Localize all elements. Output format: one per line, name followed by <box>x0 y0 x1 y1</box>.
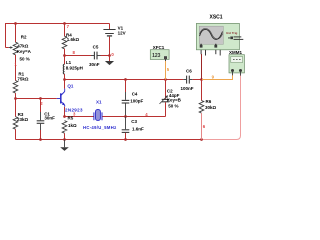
svg-text:100pF: 100pF <box>130 98 143 103</box>
battery V1 plates <box>103 29 115 31</box>
wire R1 bottom to base wire <box>15 93 17 117</box>
resistor R3 labels <box>17 112 29 122</box>
node junction rail R5 <box>63 138 66 141</box>
resistor R1 labels <box>17 71 29 81</box>
capacitor C3 body <box>125 117 127 130</box>
wire left vertical to R2 top <box>15 24 17 43</box>
svg-text:XSC1: XSC1 <box>210 14 223 20</box>
svg-text:12V: 12V <box>118 31 126 36</box>
wire XMM1 left pin stub <box>232 72 234 76</box>
svg-text:Key=B: Key=B <box>167 98 182 103</box>
ground at rail <box>64 140 66 148</box>
capacitor C6 labels <box>181 69 194 91</box>
node junction C3 top <box>124 115 127 118</box>
wire top rail <box>6 24 110 48</box>
capacitor C4 body <box>125 92 127 100</box>
svg-text:Q1: Q1 <box>67 84 74 89</box>
wire X1 right node4 <box>102 116 165 118</box>
resistor R6 body <box>199 101 204 114</box>
node junction R6 top <box>200 78 203 81</box>
wire top rail to R4 <box>64 24 66 37</box>
node junction rail C3 <box>124 138 127 141</box>
svg-text:Key=A: Key=A <box>17 49 32 54</box>
wire R3 bottom to rail <box>15 129 17 139</box>
node junction C1 top <box>39 97 42 100</box>
svg-text:1.6nF: 1.6nF <box>132 126 144 131</box>
svg-text:8.925µH: 8.925µH <box>66 66 83 71</box>
multimeter XMM1 display <box>231 57 243 63</box>
wire node8 horizontal to C5 <box>65 55 92 57</box>
svg-text:R2: R2 <box>21 35 27 40</box>
potentiometer R2 body <box>13 42 18 55</box>
node junction base wire left <box>14 97 17 100</box>
svg-text:XFC1: XFC1 <box>153 45 165 50</box>
battery V1 labels <box>118 25 126 35</box>
resistor R6 labels <box>205 99 217 110</box>
node junction V1 C5 ground <box>108 54 111 57</box>
capacitor C4 top lead <box>125 80 127 93</box>
transistor Q1 labels <box>65 84 83 113</box>
wire base net2 horizontal <box>16 98 57 100</box>
resistor R4 labels <box>66 33 80 42</box>
capacitor C5 labels <box>89 45 100 67</box>
svg-text:V1: V1 <box>118 25 124 30</box>
svg-text:30nF: 30nF <box>44 116 55 121</box>
capacitor C3 labels <box>131 119 144 131</box>
crystal X1 <box>94 109 102 120</box>
oscilloscope XSC1 screen with sine <box>199 26 223 44</box>
variable capacitor C2 arrow <box>160 97 167 104</box>
node junction rail R6 <box>200 138 203 141</box>
inductor L1 labels <box>66 60 83 71</box>
node junction rail C1 <box>39 138 42 141</box>
potentiometer R2 wiper wire <box>6 47 9 49</box>
wire node 1 segment <box>15 55 17 81</box>
svg-text:HC-49/U_5MHz: HC-49/U_5MHz <box>83 125 117 130</box>
capacitor C6 body <box>186 76 188 84</box>
svg-text:R5: R5 <box>68 116 74 121</box>
svg-text:C6: C6 <box>186 69 192 74</box>
oscilloscope XSC1 box <box>196 23 239 49</box>
resistor R4 body <box>62 36 67 49</box>
svg-text:123: 123 <box>152 53 161 59</box>
svg-text:R6: R6 <box>206 99 212 104</box>
capacitor C1 bottom lead <box>40 130 42 140</box>
svg-text:X1: X1 <box>96 100 102 105</box>
capacitor C1 body <box>40 112 42 120</box>
ground at V1 <box>109 56 111 62</box>
battery V1 top lead <box>109 24 111 30</box>
wire bottom rail <box>16 139 202 141</box>
wire C5 right to V1 <box>97 55 100 57</box>
wire R6 bottom to rail <box>201 113 203 139</box>
variable capacitor C2 labels <box>167 88 182 108</box>
inductor L1 body <box>63 64 64 74</box>
wire pink rail segment to XMM1 negative <box>202 75 241 139</box>
wire L1 bottom to collector <box>64 74 66 89</box>
capacitor C1 top lead <box>40 99 42 113</box>
svg-text:Ext Trig: Ext Trig <box>226 31 237 35</box>
potentiometer R2 wiper arrow <box>9 47 11 49</box>
svg-text:23kΩ: 23kΩ <box>17 117 29 122</box>
wire C6 right to R6 top <box>190 79 193 81</box>
node junction node 8 <box>63 54 66 57</box>
resistor R6 top lead <box>201 80 203 101</box>
svg-text:50 %: 50 % <box>20 57 30 62</box>
svg-text:1kΩ: 1kΩ <box>68 123 77 128</box>
multimeter XMM1 box <box>229 55 244 73</box>
potentiometer R2 labels <box>17 35 32 62</box>
wire XSC1 channel A <box>201 54 203 80</box>
resistor R1 body <box>13 81 18 94</box>
capacitor C1 labels <box>44 111 55 120</box>
wire orange to XMM1 <box>202 75 233 79</box>
node junction C2 top / XFC1 <box>164 78 167 81</box>
variable capacitor C2 top lead <box>165 80 167 99</box>
svg-text:75kΩ: 75kΩ <box>17 76 29 81</box>
wire XMM1 right pin pink <box>240 72 242 76</box>
svg-text:C3: C3 <box>131 119 137 124</box>
node junction R5 top <box>63 115 66 118</box>
svg-text:1.6kΩ: 1.6kΩ <box>67 37 80 42</box>
capacitor C4 labels <box>130 91 143 103</box>
capacitor C3 bottom lead <box>125 133 127 140</box>
wire XFC1 pin orange <box>165 58 167 79</box>
multimeter XMM1 terminals <box>231 69 234 72</box>
svg-text:30kΩ: 30kΩ <box>205 105 217 110</box>
svg-text:100nF: 100nF <box>181 86 194 91</box>
wire R4 bottom to node 8 <box>64 49 66 65</box>
crystal X1 labels <box>83 100 117 130</box>
node junction C4 top <box>124 78 127 81</box>
wire R5 bottom to rail <box>64 133 66 139</box>
svg-text:L1: L1 <box>66 60 72 65</box>
svg-text:50 %: 50 % <box>168 103 178 108</box>
svg-text:C4: C4 <box>132 91 138 96</box>
wire tank net horizontal <box>65 79 184 81</box>
resistor R5 labels <box>68 116 78 128</box>
variable capacitor C2 bottom lead + corner to node4 <box>165 102 167 116</box>
frequency counter XFC1 box <box>150 50 169 60</box>
svg-text:30nF: 30nF <box>89 62 100 67</box>
oscilloscope XSC1 channel B pins <box>215 44 217 46</box>
oscilloscope XSC1 channel A pins <box>200 44 202 46</box>
node junction top rail at R2 <box>14 22 17 25</box>
node junction top rail at R4 <box>63 22 66 25</box>
node junction tank net at L1 bottom <box>63 78 66 81</box>
svg-text:XMM1: XMM1 <box>229 50 242 55</box>
variable capacitor C2 body <box>162 98 170 100</box>
resistor R3 body <box>13 117 18 130</box>
svg-text:C5: C5 <box>93 45 99 50</box>
transistor Q1 2N2923 <box>57 89 65 107</box>
resistor R5 body <box>62 121 67 134</box>
battery V1 bottom lead <box>109 37 111 56</box>
wire node3 horizontal <box>65 116 94 118</box>
capacitor C5 body <box>93 52 95 60</box>
wire emitter to X1 <box>64 107 66 117</box>
